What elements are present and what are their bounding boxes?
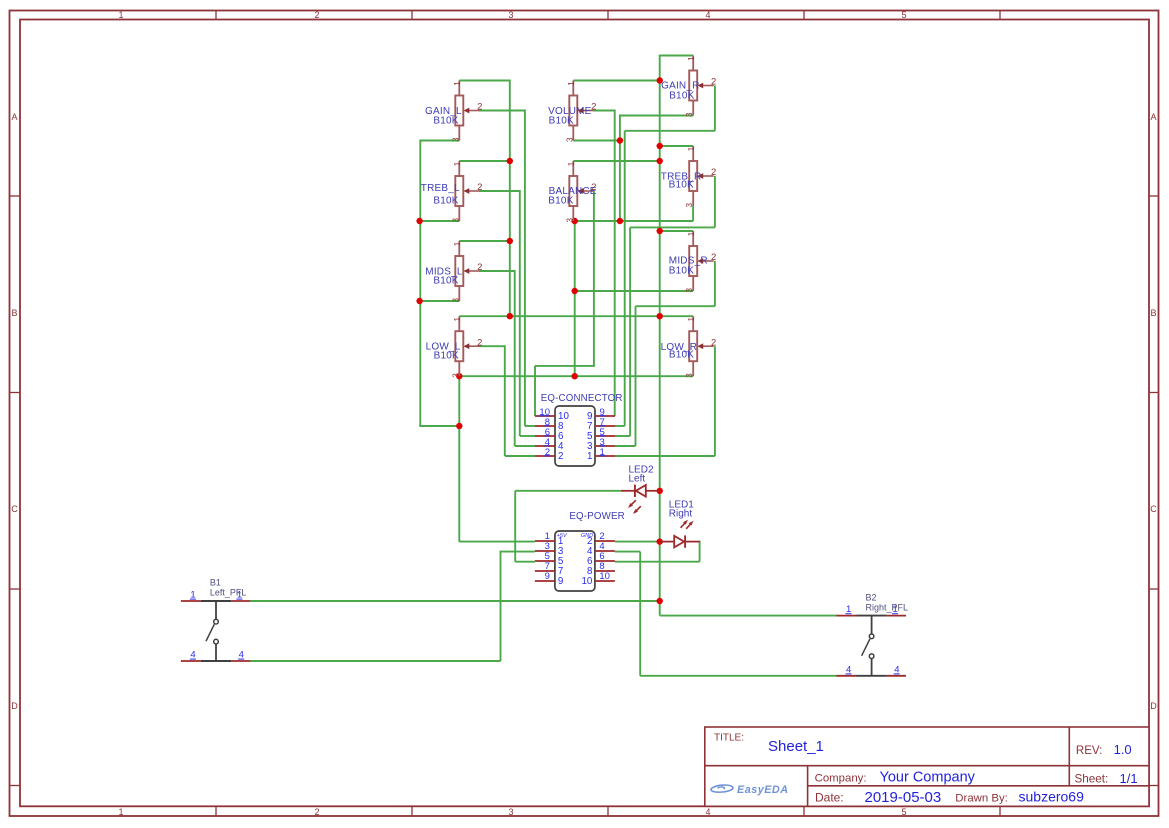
wire MIDS_R.3 row y=291 [575, 290, 693, 292]
wire mid pin3 vertical x=574.7 [574, 221, 576, 376]
svg-text:4: 4 [705, 807, 710, 817]
wire EQ-CONNECTOR.8 left [525, 425, 535, 427]
svg-text:10: 10 [599, 571, 610, 582]
wire EQ-CONNECTOR.3 right [615, 445, 636, 447]
svg-text:2: 2 [477, 102, 482, 113]
wire right pin1 bus vertical x=659.7 [659, 55, 661, 616]
svg-text:1: 1 [567, 161, 576, 166]
svg-text:+5V: +5V [557, 533, 568, 539]
wire BALANCE.2 down x=593.9 [593, 191, 595, 366]
potentiometer BALANCE (BALANCE B10K) [548, 161, 597, 223]
svg-text:10: 10 [581, 576, 592, 587]
svg-text:1: 1 [453, 317, 462, 322]
svg-text:Sheet_1: Sheet_1 [768, 738, 824, 755]
EasyEDA logo [711, 784, 789, 796]
node BALANCE.3 junction [572, 218, 578, 224]
wire MIDS_R.2 down x=714.9 [714, 261, 716, 306]
svg-text:3: 3 [565, 218, 574, 223]
wire GAIN_R.2 down x=624.7 [624, 131, 626, 426]
wire TREB_L.1 to bus [459, 160, 510, 162]
potentiometer LOW_L (LOW_L B10K) [426, 316, 483, 378]
svg-text:3: 3 [451, 218, 460, 223]
wire GAIN_L.2 down x=524.9 [524, 110, 526, 427]
svg-text:3: 3 [685, 373, 694, 378]
wire MIDS_L.1 to bus [459, 240, 510, 242]
wire B1.1 right [250, 600, 659, 602]
wire bus to B2.1 horizontal [660, 615, 837, 617]
wire GAIN_L.1 to bus [459, 80, 510, 82]
wire TREB_R.2 jog y=227.4 [630, 226, 715, 228]
wire B1.4 right [250, 660, 500, 662]
svg-text:2: 2 [711, 77, 716, 88]
wire VOLUME.2 down x=614.7 [614, 110, 616, 417]
svg-text:Your Company: Your Company [880, 769, 976, 785]
svg-text:3: 3 [565, 137, 574, 142]
svg-text:3: 3 [685, 112, 694, 117]
wire TREB_R.1 to bus [660, 145, 694, 147]
wire TREB_L.3 left [420, 220, 459, 222]
svg-text:D: D [1150, 701, 1157, 711]
wire EQ-POWER.4 down x=640.2 [639, 552, 641, 676]
svg-text:A: A [11, 112, 17, 122]
svg-text:9: 9 [545, 571, 550, 582]
svg-text:1: 1 [118, 807, 123, 817]
switch B2 (Right_PFL) [837, 592, 909, 676]
svg-text:2: 2 [711, 337, 716, 348]
wire BALANCE.2 jog y=365.9 [535, 365, 595, 367]
node MIDS_L.3 junction [416, 298, 422, 304]
wire to B2.4 y=675.8 [640, 675, 837, 677]
svg-text:B2: B2 [866, 592, 877, 602]
wire TREB_R.2 down x=714.9 [714, 176, 716, 227]
frame ruler tick marks [215, 11, 217, 20]
svg-text:GND: GND [581, 533, 593, 539]
connector EQ-CONNECTOR [535, 393, 623, 466]
svg-text:1: 1 [687, 146, 696, 151]
wire LOW_L.2 down x=504.8 [504, 345, 506, 456]
svg-text:B1: B1 [210, 578, 221, 588]
svg-text:1: 1 [587, 451, 592, 462]
node VOLUME.3 junction [617, 137, 623, 143]
svg-text:EQ-POWER: EQ-POWER [569, 511, 624, 522]
wire TREB_L.2 down x=519.8 [519, 190, 521, 436]
title block frame [705, 727, 1149, 806]
svg-text:2: 2 [314, 10, 319, 20]
wire MIDS_L.3 left [420, 300, 459, 302]
node LOW_L.1 junction [507, 313, 513, 319]
svg-text:B10K: B10K [433, 195, 458, 206]
svg-text:C: C [1150, 504, 1157, 514]
svg-text:5: 5 [901, 807, 906, 817]
potentiometer MIDS_R (MIDS_R B10K) [669, 231, 716, 293]
svg-text:3: 3 [508, 807, 513, 817]
svg-text:1: 1 [453, 161, 462, 166]
svg-text:4: 4 [705, 10, 710, 20]
wire GAIN_L.2 right [479, 110, 525, 112]
node pin3 jog junction [456, 423, 462, 429]
potentiometer TREB_R (TREB_R B10K) [661, 146, 716, 208]
potentiometer GAIN_R (GAIN_R B10K) [661, 56, 716, 118]
svg-text:2: 2 [558, 451, 563, 462]
connector EQ-POWER [535, 511, 625, 591]
svg-text:1: 1 [567, 81, 576, 86]
wire TREB_R.3 down [692, 206, 694, 221]
svg-text:2: 2 [477, 262, 482, 273]
wire GAIN_L.3 left [420, 140, 459, 142]
svg-text:1/1: 1/1 [1120, 771, 1138, 786]
svg-text:3: 3 [685, 288, 694, 293]
svg-text:B10K: B10K [433, 275, 458, 286]
wire LED1 cathode down x=699.6 [699, 541, 701, 562]
node LOW_R.1 junction [657, 313, 663, 319]
potentiometer LOW_R (LOW_R B10K) [661, 316, 717, 378]
svg-text:2: 2 [477, 182, 482, 193]
svg-text:D: D [11, 701, 18, 711]
svg-text:2: 2 [711, 252, 716, 263]
node pin3-net junction [617, 218, 623, 224]
wire MIDS_R.2 jog y=306.2 [636, 305, 715, 307]
wire MIDS_L.2 right [479, 270, 514, 272]
wire EQ-POWER.2 right [615, 541, 660, 543]
node MIDS_R.1 junction [657, 228, 663, 234]
svg-text:3: 3 [451, 298, 460, 303]
wire GAIN_R.2 jog y=130.8 [625, 130, 715, 132]
wire LOW pin1 row y=316.2 [459, 315, 693, 317]
wire EQ-CONNECTOR.4 left [515, 445, 535, 447]
wire VOLUME.3 to bus [573, 140, 620, 142]
potentiometer TREB_L (TREB_L B10K) [421, 161, 483, 223]
svg-text:1: 1 [687, 317, 696, 322]
wire VOLUME.1 to bus [573, 80, 659, 82]
wire BALANCE.2 down x=535 [534, 366, 536, 416]
wire EQ-CONNECTOR.2 left [505, 455, 535, 457]
svg-text:Date:: Date: [815, 791, 844, 805]
wire EQ-POWER.5 left [515, 561, 535, 563]
wire left pin3 vertical x=420.3 [419, 140, 421, 427]
svg-text:Left_PFL: Left_PFL [210, 588, 247, 598]
wire pin3 row y=221 [575, 220, 693, 222]
node LOW_L.3 junction [456, 373, 462, 379]
svg-text:1: 1 [687, 231, 696, 236]
svg-text:5: 5 [901, 10, 906, 20]
wire EQ-POWER.6 right [615, 561, 700, 563]
wire LOW_L.2 right [479, 345, 505, 347]
wire EQ-CONNECTOR.6 left [520, 435, 535, 437]
node LED2 cathode junction [657, 488, 663, 494]
node TREB_R.1 junction [657, 143, 663, 149]
svg-text:Sheet:: Sheet: [1075, 773, 1109, 786]
wire EQ-CONNECTOR.7 right [615, 425, 625, 427]
svg-text:2: 2 [591, 102, 596, 113]
wire MIDS_L.2 down x=514.7 [514, 270, 516, 446]
wire VOLUME.2 right [593, 110, 614, 112]
svg-text:Right_PFL: Right_PFL [866, 602, 909, 612]
svg-text:3: 3 [451, 137, 460, 142]
svg-text:B10K: B10K [669, 180, 694, 191]
svg-text:REV:: REV: [1076, 745, 1102, 757]
wire EQ-CONNECTOR.1 right [615, 455, 715, 457]
potentiometer VOLUME (VOLUME B10K) [548, 81, 596, 143]
wire EQ-POWER.5 up x=515.2 [514, 491, 516, 562]
svg-text:B10K: B10K [669, 266, 694, 277]
wire TREB_R.2 down x=630.1 [629, 227, 631, 436]
svg-text:Left: Left [629, 474, 646, 485]
wire TREB_L.2 right [479, 190, 520, 192]
svg-text:B10K: B10K [434, 350, 459, 361]
svg-text:Drawn By:: Drawn By: [955, 792, 1008, 804]
wire GAIN_R.2 down x=714.9 [714, 86, 716, 131]
svg-text:3: 3 [685, 203, 694, 208]
wire MIDS_R.2 down x=635.5 [635, 306, 637, 446]
node BALANCE.1 junction [657, 158, 663, 164]
svg-text:2019-05-03: 2019-05-03 [865, 789, 942, 806]
svg-text:1: 1 [453, 81, 462, 86]
wire to LED2 anode y=490.8 [515, 490, 621, 492]
wire MIDS_R.1 to bus [660, 230, 694, 232]
svg-text:TITLE:: TITLE: [714, 732, 744, 743]
node B1.1 junction [657, 598, 663, 604]
node LED1 anode junction [657, 538, 663, 544]
svg-text:subzero69: subzero69 [1019, 788, 1085, 804]
wire EQ-POWER.1 left [459, 541, 535, 543]
svg-text:1: 1 [453, 241, 462, 246]
svg-text:3: 3 [508, 10, 513, 20]
wire BALANCE.1 to bus [573, 160, 659, 162]
LED LED2 (Left) [621, 465, 660, 515]
svg-text:EasyEDA: EasyEDA [737, 784, 789, 796]
svg-text:TREB_L: TREB_L [421, 183, 460, 194]
wire GAIN_R.3 left [620, 115, 693, 117]
svg-text:1: 1 [118, 10, 123, 20]
wire EQ-CONNECTOR.5 right [615, 435, 630, 437]
svg-text:B10K: B10K [548, 195, 573, 206]
wire EQ-POWER.4 right [615, 551, 640, 553]
svg-text:3: 3 [451, 373, 460, 378]
svg-text:Company:: Company: [815, 772, 867, 784]
wire EQ-POWER.3 left [501, 551, 535, 553]
svg-text:2: 2 [314, 807, 319, 817]
wire LOW_R.2 down x=714.9 [714, 346, 716, 456]
potentiometer GAIN_L (GAIN_L B10K) [425, 81, 482, 143]
node MIDS_L.1 junction [507, 238, 513, 244]
node MIDS_R.3 junction [572, 288, 578, 294]
svg-text:1.0: 1.0 [1114, 742, 1132, 757]
wire ground row y=376.2 [459, 375, 693, 377]
LED LED1 (Right) [660, 500, 700, 548]
wire left pin1 bus vertical x=509.8 [509, 80, 511, 317]
svg-text:EQ-CONNECTOR: EQ-CONNECTOR [541, 393, 623, 404]
svg-text:2: 2 [711, 167, 716, 178]
wire to EQ-POWER.1 [458, 541, 460, 542]
svg-text:B10K: B10K [549, 115, 574, 126]
svg-text:B: B [11, 308, 17, 318]
svg-text:B: B [1150, 308, 1156, 318]
svg-text:B10K: B10K [669, 350, 694, 361]
wire LOW_L.3 down x=459.3 [458, 376, 460, 541]
node ground-row junction [572, 373, 578, 379]
node VOLUME.1 junction [657, 77, 663, 83]
node TREB_L.3 junction [416, 218, 422, 224]
node TREB_L.1 junction [507, 158, 513, 164]
svg-text:B10K: B10K [433, 115, 458, 126]
wire GAIN_R.1 left [660, 55, 694, 57]
svg-text:2: 2 [477, 337, 482, 348]
svg-text:B10K: B10K [669, 90, 694, 101]
wire EQ-POWER.3 down x=500.5 [500, 551, 502, 661]
wire right pin3 vertical x=619.9 [619, 115, 621, 222]
svg-text:Right: Right [669, 509, 693, 520]
potentiometer MIDS_L (MIDS_L B10K) [425, 241, 482, 303]
wire left pin3 jog y=426 [419, 425, 459, 427]
switch B1 (Left_PFL) [181, 578, 251, 661]
svg-text:C: C [11, 504, 18, 514]
svg-text:A: A [1150, 112, 1156, 122]
svg-text:9: 9 [558, 576, 563, 587]
svg-text:1: 1 [687, 56, 696, 61]
